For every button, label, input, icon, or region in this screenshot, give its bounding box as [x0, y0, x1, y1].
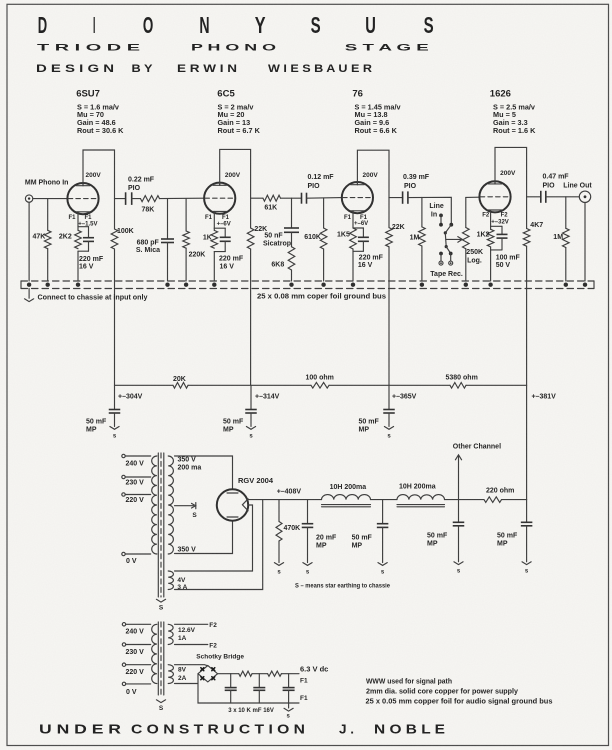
- tube type label 76 with parameters: [352, 88, 401, 135]
- node 47K on bus: [46, 283, 50, 287]
- node Rec contact: [449, 252, 453, 266]
- wire F1 return output: [289, 695, 308, 703]
- capacitor 0.22 mF PIO coupling: [126, 176, 155, 205]
- transformer T1 secondary winding 350-0-350: [168, 456, 173, 554]
- footer UNDER CONSTRUCTION J. NOBLE: [39, 721, 445, 736]
- resistor 1K5 cathode V3: [337, 228, 356, 249]
- tube type label 6C5 with parameters: [217, 88, 260, 135]
- wire V3 cathode lead: [352, 211, 354, 228]
- capacitor 100 mF 50 V cathode bypass V4: [491, 226, 521, 268]
- resistor 4K7 plate load V4: [523, 197, 543, 246]
- wire V2 plate to load node: [220, 149, 251, 198]
- node V4 cathode on bus: [488, 283, 492, 287]
- wire cap to 78K: [132, 198, 141, 200]
- rectifier Schottky bridge diamond: [198, 666, 218, 682]
- wire V4 cathode to bus: [490, 247, 492, 281]
- terminal 220 V tap T2: [122, 663, 150, 676]
- wire 6.3V dc output: [281, 664, 328, 673]
- capacitor 220 mF 16 V cathode bypass V2: [214, 228, 244, 270]
- resistor 220 ohm dropper: [484, 488, 514, 503]
- capacitor 50 nF Sicatrop RIAA: [263, 198, 299, 247]
- wire 8V top lead to bridge: [175, 665, 208, 666]
- tube V4 1626 triode: [479, 181, 510, 219]
- terminal 230 V tap: [122, 475, 151, 486]
- wire V4 plate to output node: [495, 147, 527, 196]
- resistor 22K plate load V2: [247, 198, 267, 385]
- node V3 cathode on bus: [351, 283, 355, 287]
- wire V4 cathode lead: [490, 210, 492, 226]
- capacitor 50 mF MP decoupling node 2: [223, 385, 257, 439]
- wire V1 cathode lead: [77, 212, 79, 227]
- resistor 22K plate load V3: [386, 198, 405, 386]
- input jack MM Phono In: [25, 180, 69, 203]
- resistor 1K2 cathode V4: [477, 226, 494, 247]
- node switch signal contact: [449, 223, 453, 227]
- wire V1 cathode to bus: [77, 251, 79, 281]
- wire V3 plate to load node: [357, 150, 389, 197]
- terminal 0 V tap T2: [122, 682, 150, 696]
- resistor 100K plate load V1: [111, 199, 134, 386]
- wire 61K to coupling cap: [281, 197, 302, 199]
- node Tape contact: [439, 252, 443, 266]
- resistor 2K2 cathode V1: [59, 227, 81, 249]
- capacitor filter 1 heater supply: [225, 674, 237, 703]
- resistor series heater filter 1: [239, 671, 252, 676]
- capacitor 50 mF MP filter mid: [352, 500, 389, 576]
- wire filament lead to 4V winding bottom: [175, 500, 263, 590]
- wire secondary top to rectifier anode: [175, 456, 233, 490]
- tube type label 1626 with parameters: [490, 88, 536, 135]
- note WWW used for signal path: [366, 678, 553, 705]
- wire V1 plate node to coupling cap: [115, 198, 126, 200]
- label 350 V 200 ma upper: [178, 457, 202, 472]
- tube type label 6SU7 with parameters: [76, 88, 124, 135]
- resistor 20K rail filter: [173, 376, 188, 388]
- switch selector arm upper: [444, 225, 452, 235]
- capacitor filter 3 heater supply: [283, 674, 295, 703]
- node jack ground on bus: [583, 283, 587, 287]
- transformer T1 core star ground: [156, 599, 165, 611]
- transformer T1 core: [158, 453, 164, 597]
- wire 0.39 cap to switch: [408, 197, 451, 223]
- wire jack ground lead: [28, 202, 30, 281]
- wire V2 cathode to bus: [213, 252, 215, 281]
- wire B+ output from rectifier: [247, 499, 321, 501]
- wire V4 plate node to output cap: [527, 196, 541, 198]
- switch wiper to volume pot with arrow: [445, 233, 463, 248]
- switch selector arm lower: [446, 247, 451, 254]
- wire B+ rail segment 1: [115, 384, 174, 386]
- capacitor filter 2 heater supply: [253, 674, 265, 703]
- node output 1M on bus: [564, 283, 568, 287]
- transformer T2 core: [158, 622, 164, 697]
- capacitor 0.12 mF PIO coupling: [302, 174, 335, 204]
- node 680pF on bus: [165, 283, 169, 287]
- wire B+ rail segment 3: [329, 384, 450, 386]
- resistor 220K grid leak V2: [183, 199, 206, 281]
- capacitor 20 mF MP filter: [302, 500, 337, 576]
- rectifier tube RGV 2004: [217, 476, 274, 521]
- potentiometer 250K Log volume: [463, 197, 484, 281]
- node V2 cathode on bus: [212, 283, 216, 287]
- capacitor 220 mF 16 V cathode bypass V1: [78, 227, 104, 271]
- ground bus copper foil bar: [21, 281, 594, 289]
- wire 0.12 cap to V3 grid: [307, 197, 343, 200]
- capacitor 50 mF MP decoupling node 1: [86, 385, 120, 439]
- wire filter mid: [252, 673, 268, 675]
- wire pot top to V4 grid: [466, 196, 480, 198]
- wire output jack ground to bus: [584, 203, 586, 281]
- terminal 220 V tap: [122, 493, 151, 504]
- wire B+ riser to +381V rail: [526, 385, 528, 499]
- wire 220 ohm to B+ riser: [502, 499, 527, 501]
- wire Other Channel feed with arrow: [453, 443, 501, 499]
- wire 8V bottom lead to bridge: [175, 683, 199, 685]
- resistor 5380 ohm rail filter: [446, 375, 478, 389]
- wire V1 plate to load node: [83, 150, 115, 199]
- transformer T2 primary winding: [152, 624, 157, 683]
- terminal 240 V tap T2: [122, 623, 150, 636]
- tube V2 6C5 triode: [204, 182, 235, 221]
- wire 78K to V2 grid: [160, 197, 205, 199]
- resistor series heater filter 2: [268, 671, 282, 676]
- wire B+ rail segment 4: [466, 384, 527, 386]
- resistor 6K8 RIAA: [271, 232, 294, 281]
- wire filament lead to 4V winding top: [175, 505, 253, 571]
- transformer T2 core star ground: [156, 700, 165, 712]
- subtitle TRIODE PHONO STAGE: [37, 42, 429, 53]
- transformer T1 center tap to star ground: [175, 503, 198, 519]
- node 1M on bus: [420, 283, 424, 287]
- resistor 61K series RIAA: [263, 195, 281, 211]
- resistor 610K grid leak V3: [304, 198, 327, 281]
- resistor 1M output load: [553, 197, 569, 281]
- wire choke1 to choke2: [371, 499, 398, 501]
- wire V3 cathode to bus: [352, 249, 354, 281]
- terminal 240 V tap: [122, 454, 151, 467]
- wire secondary bottom to rectifier anode: [175, 520, 233, 553]
- node 610K on bus: [321, 283, 325, 287]
- label Line In: [429, 203, 443, 219]
- resistor 470K bleeder: [274, 500, 300, 576]
- capacitor 50 mF MP decoupling node 3: [359, 385, 395, 439]
- choke 10H 200ma first: [322, 484, 371, 507]
- capacitor 220 mF 16 V cathode bypass V3: [353, 228, 384, 269]
- transformer T1 filament winding 4V 3A: [168, 571, 187, 591]
- capacitor 680 pF S. Mica to ground: [136, 199, 174, 281]
- wire 12.6V bottom lead to F2: [175, 642, 218, 649]
- node 220K on bus: [184, 283, 188, 287]
- ground star heater filter: [284, 703, 293, 720]
- capacitor 50 mF MP output node: [497, 500, 532, 575]
- resistor 100 ohm rail filter: [306, 375, 334, 389]
- wire cap to output jack: [546, 196, 579, 198]
- transformer T1 primary winding: [152, 456, 157, 554]
- node 6K8 on bus: [289, 283, 293, 287]
- wire choke2 to 220 ohm: [445, 499, 485, 501]
- resistor 47K input load: [33, 199, 52, 281]
- transformer T2 secondary 12.6V 1A winding: [168, 624, 195, 644]
- terminal Line In stub: [439, 214, 443, 227]
- wire 4K7 down to B+ rail crossing bus: [526, 246, 528, 385]
- wire V3 plate node to 0.39 cap: [389, 197, 403, 199]
- transformer T2 secondary 8V 2A winding: [168, 665, 186, 684]
- wire input jack to grid node: [33, 198, 68, 200]
- node 250K pot on bus: [464, 283, 468, 287]
- wire bridge to DC minus rail: [198, 674, 289, 703]
- capacitor 0.47 mF PIO output: [541, 173, 569, 203]
- resistor 1M grid leak V4: [410, 198, 426, 282]
- terminal 0 V tap: [122, 552, 151, 565]
- capacitor 0.39 mF PIO coupling: [403, 174, 430, 204]
- tube V1 6SU7 triode: [67, 183, 98, 221]
- node jack ground on bus: [27, 283, 31, 287]
- capacitor 50 mF MP other channel node: [427, 500, 464, 575]
- wire V2 plate node to 61K: [251, 197, 263, 199]
- node V1 cathode on bus: [76, 283, 80, 287]
- wire V2 cathode lead: [213, 211, 215, 228]
- resistor 78K series grid: [141, 196, 160, 214]
- ground chassis connection at input: [25, 289, 34, 302]
- output jack Line Out: [579, 191, 590, 202]
- choke 10H 200ma second: [397, 484, 445, 507]
- terminal 230 V tap T2: [122, 643, 150, 656]
- resistor 1K cathode V2: [203, 228, 218, 248]
- tube V3 76 triode: [342, 182, 373, 221]
- subtitle DESIGN BY ERWIN WIESBAUER: [36, 63, 372, 75]
- wire 12.6V top lead to F2: [175, 622, 218, 629]
- title DIONYSUS: [38, 12, 434, 38]
- wire B+ rail segment 2: [188, 384, 311, 386]
- wire bridge DC plus rail: [218, 673, 239, 675]
